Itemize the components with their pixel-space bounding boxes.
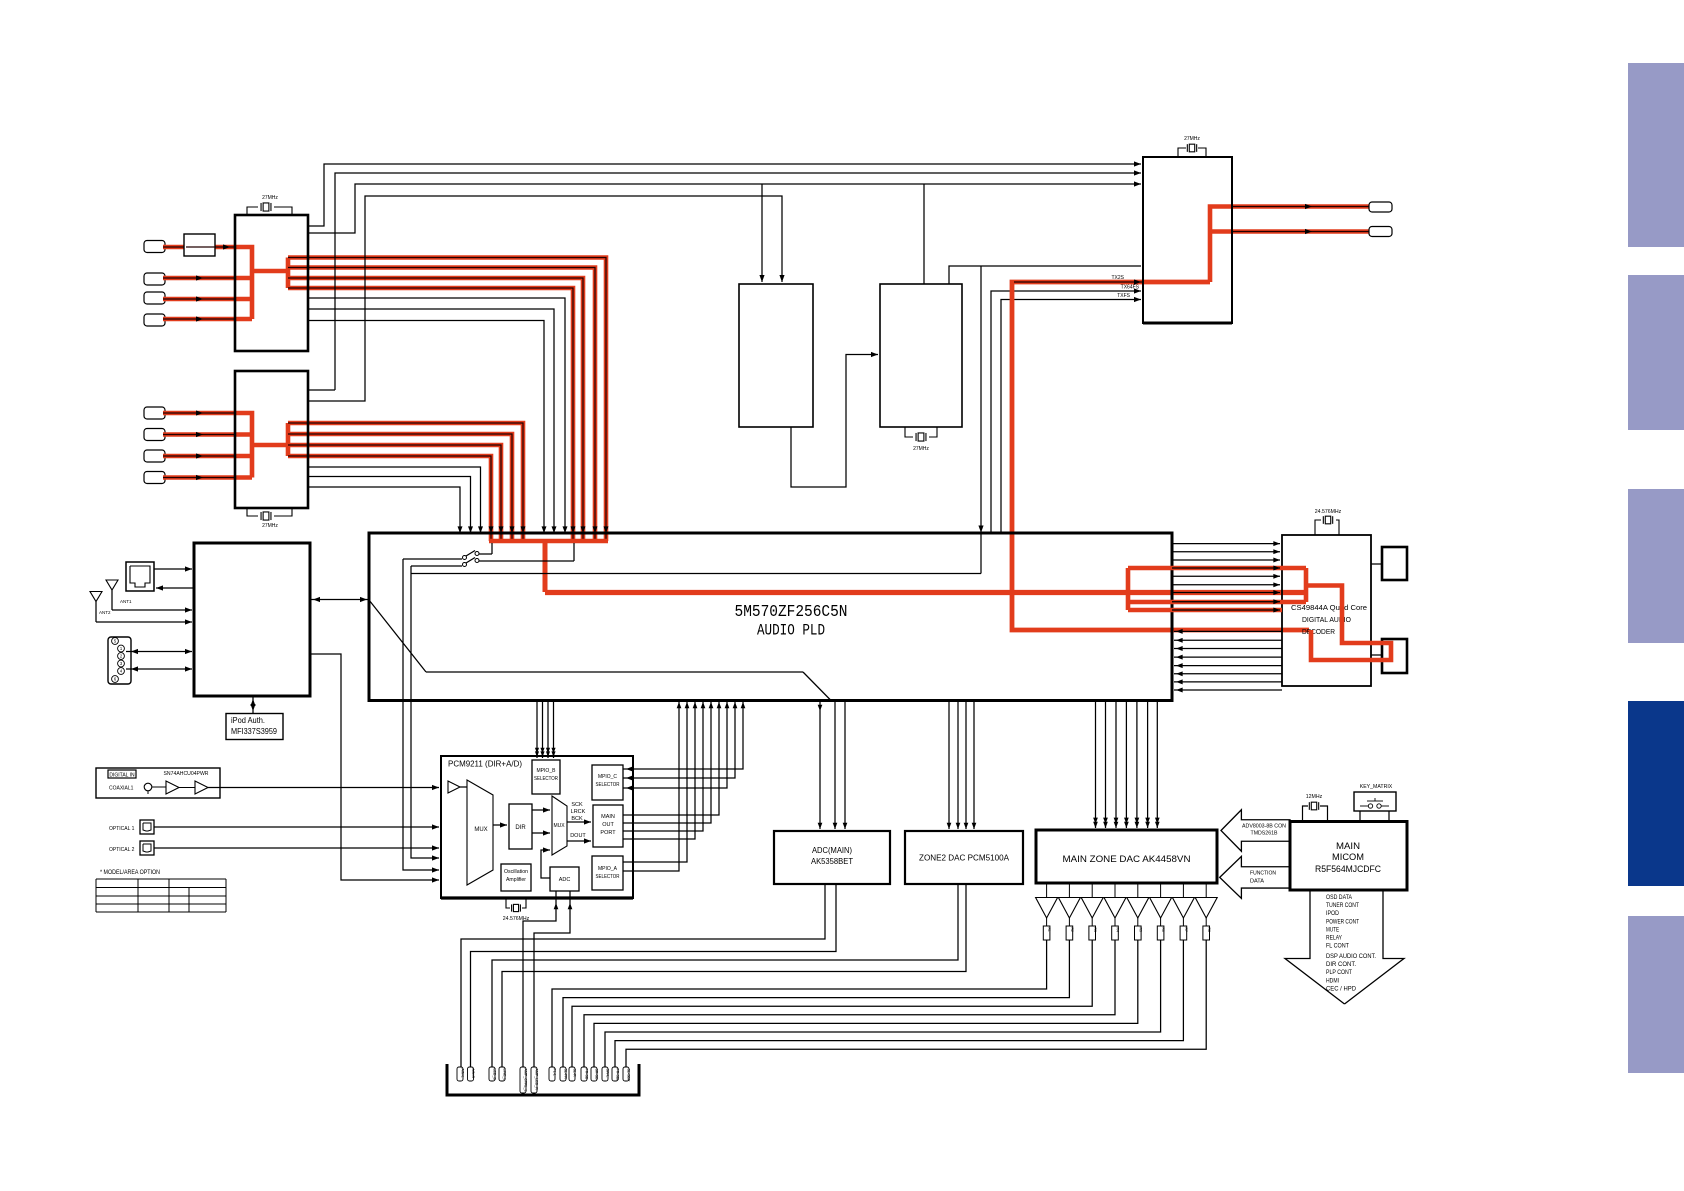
svg-text:OPTICAL 1: OPTICAL 1 <box>109 826 135 832</box>
svg-text:KEY_MATRIX: KEY_MATRIX <box>1360 784 1393 790</box>
svg-text:SELECTOR: SELECTOR <box>596 874 620 880</box>
svg-text:Oscillation: Oscillation <box>504 869 528 875</box>
svg-text:DIR: DIR <box>515 825 526 831</box>
svg-text:MUX: MUX <box>474 827 487 833</box>
svg-text:SN74AHCU04PWR: SN74AHCU04PWR <box>164 771 209 777</box>
svg-text:ADC(MAIN): ADC(MAIN) <box>812 845 852 855</box>
svg-text:27MHz: 27MHz <box>1184 136 1200 142</box>
svg-text:FUNCTION: FUNCTION <box>1250 871 1276 877</box>
svg-text:27MHz: 27MHz <box>262 195 278 201</box>
svg-text:AMP_LED_R: AMP_LED_R <box>534 1069 538 1091</box>
svg-text:FR-SBL: FR-SBL <box>615 1069 619 1082</box>
svg-text:MPIO_C: MPIO_C <box>598 774 617 780</box>
svg-text:SL-SBR: SL-SBR <box>626 1069 630 1082</box>
svg-text:iPod Auth.: iPod Auth. <box>231 716 265 725</box>
svg-text:FR-SB: FR-SB <box>584 1069 588 1080</box>
svg-text:MUTE: MUTE <box>1326 927 1339 933</box>
svg-text:LRCK: LRCK <box>571 809 586 815</box>
svg-text:PCM9211 (DIR+A/D): PCM9211 (DIR+A/D) <box>448 759 522 769</box>
svg-text:SR-SB: SR-SB <box>594 1069 598 1081</box>
svg-text:ANT1: ANT1 <box>120 599 132 604</box>
svg-text:12MHz: 12MHz <box>1306 794 1323 800</box>
svg-text:R8: R8 <box>1207 928 1211 932</box>
svg-text:OPTICAL 2: OPTICAL 2 <box>109 847 135 853</box>
svg-text:OSD DATA: OSD DATA <box>1326 895 1352 901</box>
svg-text:TMDS261B: TMDS261B <box>1251 831 1278 837</box>
svg-text:R5F564MJCDFC: R5F564MJCDFC <box>1315 864 1381 874</box>
svg-text:MPIO_A: MPIO_A <box>598 866 618 872</box>
svg-text:24.576MHz: 24.576MHz <box>1315 509 1342 515</box>
svg-text:BCK: BCK <box>571 816 583 822</box>
svg-text:COAXIAL1: COAXIAL1 <box>109 786 134 792</box>
svg-text:CS49844A Quad Core: CS49844A Quad Core <box>1291 603 1367 612</box>
svg-text:MAIN: MAIN <box>601 814 615 820</box>
svg-text:MPIO_B: MPIO_B <box>537 768 557 774</box>
svg-text:DSP AUDIO CONT.: DSP AUDIO CONT. <box>1326 954 1376 960</box>
svg-text:SL-FR: SL-FR <box>563 1069 567 1080</box>
svg-text:SELECTOR: SELECTOR <box>534 776 558 782</box>
svg-text:MICOM: MICOM <box>1332 852 1364 862</box>
svg-text:FL-L: FL-L <box>552 1069 556 1076</box>
svg-text:27MHz: 27MHz <box>913 446 929 452</box>
svg-text:AIN-L: AIN-L <box>460 1069 464 1078</box>
svg-text:DIR CONT.: DIR CONT. <box>1326 962 1356 968</box>
svg-text:5M570ZF256C5N: 5M570ZF256C5N <box>735 603 848 622</box>
svg-text:R2: R2 <box>1070 928 1074 932</box>
svg-text:R3: R3 <box>1093 928 1097 932</box>
svg-text:POWER CONT: POWER CONT <box>1326 919 1359 925</box>
svg-text:R4: R4 <box>1116 928 1120 932</box>
svg-text:Amplifier: Amplifier <box>506 877 526 883</box>
svg-text:OUT: OUT <box>602 822 614 828</box>
svg-text:LINE_L: LINE_L <box>502 1069 506 1081</box>
svg-text:ADV8003-8B CON: ADV8003-8B CON <box>1242 824 1286 830</box>
svg-text:SL-R: SL-R <box>572 1069 576 1078</box>
svg-text:ZONE2 DAC PCM5100A: ZONE2 DAC PCM5100A <box>919 854 1010 863</box>
svg-text:TUNER CONT: TUNER CONT <box>1326 903 1359 909</box>
svg-text:AMP_CTRL_L: AMP_CTRL_L <box>523 1069 527 1092</box>
svg-text:FL CONT: FL CONT <box>1326 944 1349 950</box>
svg-text:AIN-R: AIN-R <box>471 1069 475 1079</box>
svg-text:SELECTOR: SELECTOR <box>596 782 620 788</box>
svg-text:27MHz: 27MHz <box>262 523 278 529</box>
svg-text:* MODEL/AREA OPTION: * MODEL/AREA OPTION <box>100 869 160 876</box>
svg-text:LED_B: LED_B <box>492 1069 496 1081</box>
svg-text:ANT2: ANT2 <box>99 610 111 615</box>
svg-text:R1: R1 <box>1047 928 1051 932</box>
svg-text:MAIN: MAIN <box>1336 841 1360 851</box>
svg-text:SCK: SCK <box>571 802 583 808</box>
svg-text:R6: R6 <box>1161 928 1165 932</box>
svg-text:TX64FS: TX64FS <box>1121 285 1140 291</box>
svg-text:DATA: DATA <box>1250 879 1264 885</box>
svg-text:R5: R5 <box>1138 928 1142 932</box>
svg-text:R7: R7 <box>1184 928 1188 932</box>
svg-text:AK5358BET: AK5358BET <box>811 856 853 866</box>
svg-text:DIGITAL IN: DIGITAL IN <box>109 772 135 778</box>
svg-text:HDMI: HDMI <box>1326 978 1339 984</box>
svg-text:ADC: ADC <box>559 877 571 883</box>
svg-text:DECODER: DECODER <box>1302 627 1336 636</box>
svg-text:SW-L: SW-L <box>605 1069 609 1078</box>
svg-text:MUX: MUX <box>553 823 565 829</box>
svg-text:PORT: PORT <box>600 830 616 836</box>
svg-text:DOUT: DOUT <box>570 833 586 839</box>
svg-text:RELAY: RELAY <box>1326 936 1342 942</box>
svg-text:MFI337S3959: MFI337S3959 <box>231 727 277 736</box>
svg-text:AUDIO PLD: AUDIO PLD <box>757 622 825 640</box>
svg-text:IPOD: IPOD <box>1326 911 1340 917</box>
svg-text:TXFS: TXFS <box>1117 293 1130 299</box>
svg-text:PLP CONT: PLP CONT <box>1326 970 1352 976</box>
svg-text:MAIN ZONE DAC AK4458VN: MAIN ZONE DAC AK4458VN <box>1063 854 1191 865</box>
svg-text:CEC / HPD: CEC / HPD <box>1326 986 1357 992</box>
